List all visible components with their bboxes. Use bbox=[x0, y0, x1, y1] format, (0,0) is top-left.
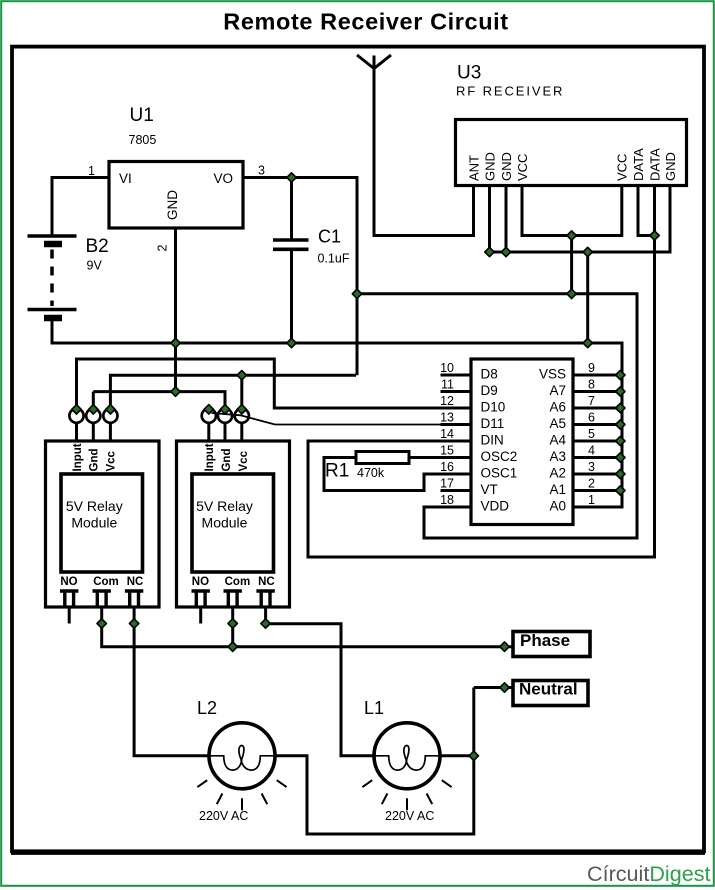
svg-text:5V Relay: 5V Relay bbox=[196, 498, 253, 514]
svg-text:NC: NC bbox=[127, 576, 144, 588]
svg-text:VT: VT bbox=[481, 482, 498, 497]
svg-text:C1: C1 bbox=[318, 227, 341, 247]
svg-text:3: 3 bbox=[588, 460, 595, 474]
svg-text:Vcc: Vcc bbox=[106, 450, 118, 471]
svg-text:ANT: ANT bbox=[466, 155, 481, 181]
svg-text:2: 2 bbox=[156, 244, 170, 251]
svg-text:Gnd: Gnd bbox=[221, 449, 233, 472]
svg-text:VDD: VDD bbox=[481, 499, 510, 514]
svg-text:OSC1: OSC1 bbox=[481, 466, 518, 481]
svg-text:R1: R1 bbox=[325, 461, 349, 482]
svg-text:DATA: DATA bbox=[647, 148, 662, 181]
svg-text:U3: U3 bbox=[457, 63, 481, 84]
svg-text:9V: 9V bbox=[87, 259, 103, 273]
svg-text:Com: Com bbox=[225, 576, 251, 588]
svg-text:GND: GND bbox=[165, 190, 180, 220]
svg-text:B2: B2 bbox=[86, 236, 109, 257]
svg-text:9: 9 bbox=[588, 361, 595, 375]
svg-text:Com: Com bbox=[93, 576, 119, 588]
svg-text:1: 1 bbox=[88, 164, 95, 178]
svg-text:7805: 7805 bbox=[129, 133, 157, 147]
svg-text:DATA: DATA bbox=[631, 148, 646, 181]
svg-text:D11: D11 bbox=[481, 416, 505, 431]
svg-text:VCC: VCC bbox=[515, 154, 530, 181]
svg-text:D9: D9 bbox=[481, 383, 498, 398]
svg-text:VI: VI bbox=[119, 171, 132, 186]
svg-text:12: 12 bbox=[440, 394, 454, 408]
svg-text:220V AC: 220V AC bbox=[199, 809, 248, 823]
svg-text:GND: GND bbox=[499, 152, 514, 181]
svg-text:13: 13 bbox=[440, 410, 454, 424]
svg-text:5V Relay: 5V Relay bbox=[66, 498, 123, 514]
svg-text:6: 6 bbox=[588, 410, 595, 424]
svg-text:L2: L2 bbox=[197, 698, 217, 718]
svg-text:VO: VO bbox=[213, 171, 233, 186]
svg-text:NO: NO bbox=[192, 576, 209, 588]
svg-text:L1: L1 bbox=[364, 698, 384, 718]
svg-text:A3: A3 bbox=[549, 449, 566, 464]
svg-text:Module: Module bbox=[71, 515, 117, 531]
svg-text:A2: A2 bbox=[549, 466, 566, 481]
svg-text:8: 8 bbox=[588, 377, 595, 391]
svg-text:2: 2 bbox=[588, 476, 595, 490]
svg-text:D8: D8 bbox=[481, 367, 498, 382]
svg-text:A1: A1 bbox=[549, 482, 566, 497]
svg-text:A0: A0 bbox=[549, 499, 566, 514]
svg-text:A7: A7 bbox=[549, 383, 566, 398]
svg-text:15: 15 bbox=[440, 443, 454, 457]
svg-text:Gnd: Gnd bbox=[89, 449, 101, 472]
svg-text:OSC2: OSC2 bbox=[481, 449, 518, 464]
svg-text:Neutral: Neutral bbox=[519, 680, 578, 699]
svg-text:220V AC: 220V AC bbox=[385, 809, 434, 823]
svg-text:GND: GND bbox=[482, 152, 497, 181]
svg-text:RF RECEIVER: RF RECEIVER bbox=[456, 84, 564, 99]
svg-text:5: 5 bbox=[588, 427, 595, 441]
svg-text:CírcuitDigest: CírcuitDigest bbox=[587, 863, 711, 886]
svg-text:1: 1 bbox=[588, 493, 595, 507]
svg-text:Input: Input bbox=[204, 443, 216, 471]
svg-text:Vcc: Vcc bbox=[238, 450, 250, 471]
svg-text:17: 17 bbox=[440, 476, 454, 490]
svg-text:0.1uF: 0.1uF bbox=[318, 252, 350, 266]
svg-text:A6: A6 bbox=[549, 400, 566, 415]
svg-text:470k: 470k bbox=[357, 466, 385, 480]
svg-text:NO: NO bbox=[60, 576, 77, 588]
svg-text:4: 4 bbox=[588, 443, 595, 457]
svg-text:10: 10 bbox=[440, 361, 454, 375]
svg-text:U1: U1 bbox=[130, 105, 154, 126]
svg-text:3: 3 bbox=[258, 164, 265, 178]
svg-text:A5: A5 bbox=[549, 416, 566, 431]
svg-text:A4: A4 bbox=[549, 433, 566, 448]
svg-text:GND: GND bbox=[663, 152, 678, 181]
svg-text:Input: Input bbox=[72, 443, 84, 471]
svg-text:NC: NC bbox=[258, 576, 275, 588]
svg-text:Phase: Phase bbox=[520, 631, 570, 650]
svg-text:VCC: VCC bbox=[615, 154, 630, 181]
svg-text:DIN: DIN bbox=[481, 433, 504, 448]
svg-text:Module: Module bbox=[202, 515, 248, 531]
svg-text:16: 16 bbox=[440, 460, 454, 474]
svg-text:VSS: VSS bbox=[539, 367, 566, 382]
svg-text:7: 7 bbox=[588, 394, 595, 408]
svg-text:14: 14 bbox=[440, 427, 454, 441]
svg-text:18: 18 bbox=[440, 493, 454, 507]
svg-text:D10: D10 bbox=[481, 400, 506, 415]
svg-text:11: 11 bbox=[441, 377, 454, 391]
svg-text:Remote Receiver Circuit: Remote Receiver Circuit bbox=[223, 9, 508, 35]
